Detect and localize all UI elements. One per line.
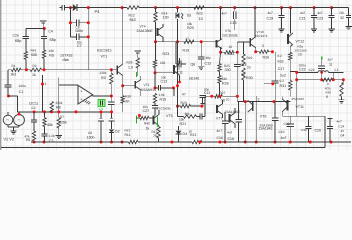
svg-text:3: 3	[258, 98, 260, 102]
svg-text:C24: C24	[339, 124, 345, 128]
svg-text:32: 32	[341, 129, 345, 133]
svg-text:2SA1943: 2SA1943	[292, 97, 305, 101]
svg-text:C9: C9	[99, 107, 103, 111]
svg-text:C22: C22	[299, 67, 306, 71]
svg-text:~: ~	[18, 118, 21, 124]
svg-text:4n7: 4n7	[217, 129, 223, 133]
svg-text:47: 47	[182, 92, 186, 96]
svg-text:R22: R22	[197, 12, 203, 16]
svg-text:10: 10	[298, 53, 302, 57]
svg-text:R29: R29	[187, 26, 194, 30]
svg-text:2SA1380E: 2SA1380E	[137, 29, 154, 33]
svg-text:3: 3	[262, 44, 264, 48]
svg-text:VT4: VT4	[140, 24, 146, 28]
svg-text:220k: 220k	[100, 71, 107, 75]
svg-text:330: 330	[225, 68, 231, 72]
svg-text:48k: 48k	[47, 123, 53, 127]
svg-text:C1: C1	[19, 90, 24, 94]
svg-text:R23: R23	[181, 101, 187, 105]
svg-text:VT7: VT7	[216, 116, 222, 120]
svg-text:3u7: 3u7	[328, 57, 333, 61]
svg-text:b4: b4	[341, 134, 345, 138]
svg-text:C10: C10	[279, 130, 285, 134]
svg-text:4n7: 4n7	[300, 11, 306, 15]
svg-text:2SC3503E: 2SC3503E	[157, 106, 172, 110]
svg-text:C20: C20	[315, 129, 321, 133]
svg-text:C28: C28	[284, 122, 290, 126]
svg-text:R33: R33	[278, 59, 284, 63]
svg-text:R12: R12	[129, 14, 135, 18]
svg-text:C4: C4	[49, 29, 53, 33]
svg-text:100n: 100n	[75, 29, 83, 33]
svg-text:130n: 130n	[87, 135, 95, 139]
svg-text:R15: R15	[160, 97, 167, 101]
svg-text:C13: C13	[161, 79, 168, 83]
svg-text:2SA1908: 2SA1908	[259, 123, 273, 127]
svg-text:R26: R26	[222, 81, 229, 85]
svg-text:30k: 30k	[185, 112, 191, 116]
svg-text:R23: R23	[163, 52, 170, 56]
svg-text:R25: R25	[224, 64, 230, 68]
svg-text:1.0: 1.0	[128, 66, 133, 70]
svg-text:4n7: 4n7	[281, 136, 287, 140]
svg-text:4n7: 4n7	[222, 11, 228, 15]
svg-text:C3: C3	[49, 139, 54, 143]
svg-text:11: 11	[329, 62, 333, 66]
svg-text:das: das	[63, 57, 69, 62]
svg-text:C(C1): C(C1)	[29, 102, 38, 106]
svg-text:R41: R41	[31, 48, 37, 52]
svg-text:6D140: 6D140	[189, 76, 199, 80]
svg-text:2u2: 2u2	[280, 73, 286, 77]
svg-text:6k3: 6k3	[130, 18, 136, 22]
svg-text:C2: C2	[32, 106, 36, 110]
svg-text:C18: C18	[228, 137, 234, 141]
svg-text:C7: C7	[77, 44, 82, 48]
svg-text:1k: 1k	[32, 73, 36, 77]
svg-text:C16: C16	[217, 136, 223, 140]
svg-text:20: 20	[247, 66, 251, 70]
svg-text:V1 V2: V1 V2	[4, 138, 14, 142]
svg-text:4n7: 4n7	[268, 11, 274, 15]
svg-text:0.2: 0.2	[280, 79, 285, 83]
svg-text:3k3: 3k3	[11, 72, 17, 76]
svg-text:32: 32	[340, 16, 344, 20]
svg-text:47: 47	[186, 37, 190, 41]
svg-text:~: ~	[7, 118, 10, 124]
svg-text:68p: 68p	[15, 39, 21, 43]
svg-text:C30: C30	[301, 128, 307, 132]
svg-text:R7: R7	[60, 115, 64, 119]
svg-text:VT5: VT5	[166, 114, 173, 118]
svg-text:R27: R27	[220, 91, 226, 95]
svg-text:2SC3503E: 2SC3503E	[222, 33, 239, 37]
svg-text:R40: R40	[144, 122, 150, 126]
svg-text:R8: R8	[56, 105, 61, 109]
svg-text:68p: 68p	[50, 38, 56, 42]
svg-text:2.2b: 2.2b	[49, 134, 55, 138]
svg-text:C23: C23	[317, 17, 324, 21]
svg-text:R21: R21	[180, 122, 187, 126]
svg-text:8: 8	[326, 95, 328, 99]
svg-text:10: 10	[199, 17, 203, 21]
svg-text:10: 10	[229, 45, 233, 49]
svg-text:10: 10	[226, 98, 230, 102]
svg-text:1: 1	[45, 82, 47, 86]
svg-text:130: 130	[163, 16, 169, 20]
svg-text:10: 10	[221, 98, 225, 102]
svg-text:VT12: VT12	[296, 39, 305, 43]
svg-text:VT2: VT2	[144, 83, 150, 87]
svg-text:100u: 100u	[19, 84, 27, 88]
svg-text:C13: C13	[204, 91, 210, 95]
svg-text:VT1: VT1	[101, 55, 108, 59]
svg-text:R18: R18	[125, 95, 131, 99]
svg-text:R2: R2	[33, 64, 37, 68]
svg-text:232: 232	[160, 61, 166, 65]
svg-text:2K: 2K	[125, 100, 130, 104]
svg-text:C15: C15	[230, 21, 237, 25]
svg-text:R30: R30	[246, 76, 253, 80]
svg-text:R31: R31	[280, 84, 287, 88]
svg-text:R26: R26	[263, 56, 270, 60]
svg-text:R28: R28	[127, 61, 133, 65]
svg-text:C21: C21	[299, 17, 306, 21]
svg-text:C27: C27	[143, 109, 150, 113]
svg-text:L1: L1	[335, 68, 339, 72]
svg-text:R11: R11	[125, 133, 131, 137]
svg-text:C17: C17	[278, 67, 285, 71]
svg-text:38p: 38p	[206, 56, 212, 60]
svg-text:C26: C26	[13, 33, 19, 37]
svg-text:4n7: 4n7	[337, 120, 342, 124]
svg-text:4n7: 4n7	[318, 11, 324, 15]
svg-text:R3: R3	[340, 11, 344, 15]
svg-text:0.2: 0.2	[278, 54, 283, 58]
svg-text:R9: R9	[101, 76, 106, 80]
svg-text:R29: R29	[247, 56, 253, 60]
svg-text:2SC3171: 2SC3171	[255, 34, 268, 38]
svg-text:KSC1815: KSC1815	[97, 49, 112, 53]
svg-text:600: 600	[31, 53, 37, 57]
svg-text:1k: 1k	[146, 127, 150, 131]
svg-text:D2: D2	[115, 130, 120, 134]
svg-text:Q6: Q6	[191, 63, 196, 67]
svg-text:R1: R1	[12, 64, 16, 68]
svg-text:4n7: 4n7	[227, 130, 232, 134]
svg-text:P4: P4	[95, 9, 101, 14]
svg-text:C8: C8	[88, 131, 92, 135]
svg-text:R43: R43	[125, 129, 131, 133]
svg-text:C22: C22	[309, 68, 315, 72]
svg-text:R5: R5	[49, 54, 54, 58]
svg-text:R19: R19	[183, 49, 190, 53]
svg-text:R0: R0	[26, 138, 30, 142]
svg-text:C12: C12	[205, 62, 212, 66]
svg-text:VT9: VT9	[260, 115, 267, 119]
svg-text:C19: C19	[267, 17, 274, 21]
svg-text:330: 330	[222, 77, 228, 81]
svg-text:R23: R23	[190, 133, 196, 137]
svg-text:220k: 220k	[59, 121, 67, 125]
svg-text:03: 03	[187, 13, 191, 17]
svg-text:D4: D4	[183, 132, 188, 136]
svg-text:R24: R24	[228, 52, 235, 56]
svg-text:75: 75	[153, 134, 157, 138]
